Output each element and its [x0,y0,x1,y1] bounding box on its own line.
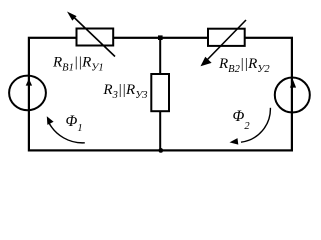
loop arrow Phi2 [230,108,271,145]
resistor RB1||RV1 box [77,29,114,46]
loop arrow Phi1 [47,116,85,143]
current source I2 circle [275,78,310,113]
svg-text:Φ1: Φ1 [66,113,83,134]
current source I1 arrowhead [26,79,32,86]
node bottom junction [158,148,163,153]
resistor RB2||RV2 variable arrow [201,20,247,66]
node top junction [158,35,163,40]
resistor R3||RV3 box [151,74,169,111]
current source I2 arrowhead [290,80,296,88]
svg-text:RВ2||RУ2: RВ2||RУ2 [218,56,270,75]
wire outer loop rectangle [29,38,292,151]
resistor RB2||RV2 box [208,29,245,46]
resistor RB1||RV1 variable arrow [67,12,115,57]
svg-text:R3||RУ3: R3||RУ3 [102,82,147,101]
svg-text:RВ1||RУ1: RВ1||RУ1 [52,54,104,73]
svg-text:Φ2: Φ2 [233,108,251,132]
wire middle branch [159,38,161,151]
current source I1 circle [9,76,46,111]
